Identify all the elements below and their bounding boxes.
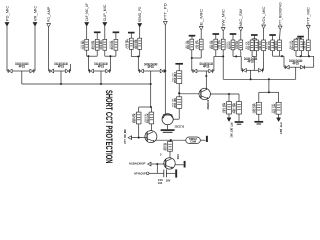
svg-text:R13 10K: R13 10K bbox=[134, 40, 136, 48]
text 16V bbox=[166, 178, 171, 182]
power bar bbox=[269, 35, 276, 40]
resistor R31 bbox=[246, 40, 254, 51]
resistor R1 bbox=[91, 39, 99, 50]
capacitor C35 bbox=[302, 40, 310, 51]
terminal bbox=[175, 169, 177, 177]
svg-text:PTT_PD: PTT_PD bbox=[164, 2, 168, 20]
svg-text:C35 104: C35 104 bbox=[302, 41, 304, 49]
wire bbox=[205, 89, 207, 90]
diode pair D7 D8 bbox=[138, 62, 165, 73]
wire bbox=[149, 172, 164, 174]
node bbox=[228, 93, 230, 95]
wire bbox=[222, 31, 224, 39]
wire bbox=[307, 29, 309, 40]
node bbox=[109, 55, 111, 57]
wire bbox=[273, 51, 284, 57]
resistor R34 bbox=[290, 39, 298, 51]
svg-text:R61 10K: R61 10K bbox=[233, 103, 235, 113]
svg-text:4P1S: 4P1S bbox=[98, 65, 104, 69]
svg-text:R34 47K: R34 47K bbox=[290, 40, 292, 49]
svg-text:PTT_DET: PTT_DET bbox=[279, 123, 283, 135]
wire bbox=[238, 94, 240, 102]
capacitor C2 bbox=[99, 39, 107, 50]
capacitor C62 bbox=[252, 102, 261, 114]
wire T1 base bbox=[179, 93, 201, 95]
wire bbox=[138, 124, 140, 138]
svg-text:HT4ACUP: HT4ACUP bbox=[134, 172, 146, 176]
wire bbox=[178, 84, 180, 94]
wire bbox=[238, 114, 240, 121]
wire bbox=[131, 49, 139, 56]
svg-text:PD_AMP: PD_AMP bbox=[47, 6, 51, 22]
node bbox=[191, 57, 193, 59]
power bar bbox=[230, 34, 237, 40]
node bbox=[137, 55, 139, 57]
transistor Q2 bbox=[162, 114, 184, 129]
svg-text:C11 104: C11 104 bbox=[81, 40, 83, 48]
power bar bbox=[213, 34, 220, 39]
svg-text:MIC_SW: MIC_SW bbox=[239, 8, 243, 27]
resistor R21 bbox=[186, 39, 194, 50]
node G4R bbox=[164, 70, 166, 72]
wire bbox=[253, 57, 255, 71]
svg-text:4P1S: 4P1S bbox=[148, 65, 154, 69]
svg-text:C23 104: C23 104 bbox=[235, 41, 237, 48]
wire bbox=[283, 56, 285, 67]
wire T3 base bbox=[132, 137, 148, 139]
svg-text:2SC: 2SC bbox=[177, 154, 180, 160]
node bbox=[235, 55, 237, 57]
svg-text:R59 10K: R59 10K bbox=[145, 113, 147, 122]
wire bbox=[109, 56, 111, 71]
transistor Q4 bbox=[164, 158, 175, 169]
terminal bbox=[206, 136, 208, 142]
wire bbox=[240, 56, 242, 70]
diode pair D11 D12 bbox=[241, 57, 263, 72]
wire bbox=[150, 84, 152, 107]
svg-text:CAP_MIC_AP: CAP_MIC_AP bbox=[85, 3, 89, 22]
resistor R62 bbox=[272, 102, 281, 114]
wire bbox=[269, 92, 279, 102]
capacitor C34 bbox=[300, 39, 304, 51]
wire bbox=[259, 92, 269, 102]
wire bbox=[306, 56, 314, 67]
wire bbox=[6, 26, 8, 71]
svg-text:2SC2712: 2SC2712 bbox=[175, 125, 185, 129]
port SW_MIC bbox=[221, 8, 225, 31]
port PTT_PD bbox=[163, 2, 167, 25]
wire bbox=[104, 26, 106, 39]
wire bbox=[70, 64, 72, 71]
resistor R59 bbox=[145, 112, 154, 124]
wire bbox=[139, 27, 141, 38]
wire bbox=[214, 50, 223, 57]
svg-text:C22 104: C22 104 bbox=[217, 40, 219, 48]
wire bbox=[278, 114, 280, 118]
capacitor C33 bbox=[274, 40, 282, 51]
node bbox=[87, 55, 89, 57]
wire bbox=[205, 71, 207, 89]
port PTT_DET B bbox=[277, 118, 283, 134]
ground bbox=[161, 130, 175, 132]
wire bbox=[296, 51, 314, 57]
capacitor C32 bbox=[258, 40, 266, 51]
resistor R3 bbox=[134, 38, 142, 49]
capacitor C61 bbox=[223, 102, 232, 114]
capacitor C23 bbox=[235, 40, 243, 50]
node bbox=[250, 78, 252, 80]
wire bbox=[250, 70, 252, 79]
resistor R23 bbox=[227, 40, 235, 50]
port CAP_MIC_AP bbox=[85, 3, 89, 26]
wire bbox=[279, 30, 282, 41]
svg-text:R33 47K: R33 47K bbox=[267, 41, 269, 49]
port PTT_DET A bbox=[227, 118, 233, 138]
svg-text:C61 104: C61 104 bbox=[223, 103, 225, 113]
wire bbox=[228, 94, 230, 102]
wire bbox=[166, 172, 175, 174]
wire to T2 base bbox=[164, 25, 166, 115]
node bbox=[222, 55, 224, 57]
svg-text:R12 10K: R12 10K bbox=[110, 41, 112, 49]
node bbox=[268, 78, 270, 80]
node bbox=[281, 55, 283, 57]
wire bbox=[252, 51, 256, 57]
node bbox=[100, 83, 102, 85]
svg-text:C32 104: C32 104 bbox=[258, 41, 260, 49]
wire bbox=[60, 71, 62, 84]
port E_MIC bbox=[199, 8, 203, 30]
transistor Q3 bbox=[145, 131, 157, 143]
regulator U1 bbox=[186, 137, 201, 144]
wire bbox=[263, 29, 265, 41]
svg-text:R62 10K: R62 10K bbox=[272, 104, 274, 113]
svg-text:A1BACKUP: A1BACKUP bbox=[129, 162, 146, 166]
wire bbox=[295, 67, 297, 79]
wire bbox=[173, 108, 179, 119]
svg-text:VOL_MIC: VOL_MIC bbox=[262, 6, 266, 24]
capacitor C22 bbox=[217, 39, 225, 50]
svg-text:SHORT CCT PROTECTION: SHORT CCT PROTECTION bbox=[103, 90, 114, 164]
node bbox=[308, 55, 310, 57]
svg-text:VR_MIC: VR_MIC bbox=[33, 5, 37, 21]
power bar bbox=[251, 35, 258, 39]
port PTT_SW bbox=[123, 128, 132, 143]
resistor R55 bbox=[173, 71, 182, 84]
svg-text:PTT_MIC: PTT_MIC bbox=[307, 6, 311, 24]
bus wire bbox=[22, 83, 151, 85]
node bbox=[170, 139, 172, 141]
node bbox=[300, 55, 302, 57]
svg-text:R57 1K: R57 1K bbox=[164, 143, 166, 150]
svg-text:C13 104: C13 104 bbox=[125, 39, 127, 48]
power bar bbox=[113, 32, 120, 39]
wire bbox=[233, 50, 241, 57]
wire bbox=[150, 124, 152, 131]
svg-text:R58 47K: R58 47K bbox=[132, 113, 134, 122]
wire bbox=[252, 39, 256, 40]
wire bbox=[240, 31, 242, 40]
wire bbox=[200, 139, 205, 141]
node bbox=[178, 92, 180, 94]
svg-text:PTT_MICROPHO: PTT_MICROPHO bbox=[279, 2, 283, 25]
svg-text:4P1S: 4P1S bbox=[58, 65, 64, 69]
wire bbox=[200, 30, 202, 39]
svg-text:R21 47K: R21 47K bbox=[186, 41, 188, 49]
svg-text:C21 104: C21 104 bbox=[195, 40, 197, 48]
svg-text:4P1S: 4P1S bbox=[19, 65, 25, 69]
svg-text:PD_MIC: PD_MIC bbox=[5, 5, 9, 21]
wire bbox=[100, 71, 102, 84]
resistor R61 bbox=[233, 102, 242, 114]
wire bbox=[156, 164, 158, 173]
wire bbox=[167, 125, 169, 130]
wire bbox=[86, 26, 88, 39]
port MIC_SW bbox=[239, 8, 243, 31]
node bbox=[156, 163, 158, 165]
capacitor C16 bbox=[164, 170, 167, 178]
wire T4 base bbox=[151, 163, 166, 165]
wire T1 emitter bbox=[210, 93, 239, 95]
power bar bbox=[297, 37, 304, 40]
svg-text:2SB1132: 2SB1132 bbox=[206, 100, 210, 110]
port PTT_MIC bbox=[306, 6, 310, 29]
node bbox=[60, 83, 62, 85]
capacitor C31 bbox=[255, 40, 259, 51]
port PD_AMP bbox=[47, 6, 51, 27]
port PTT_MICROPHO bbox=[278, 2, 282, 29]
wire bbox=[268, 79, 270, 92]
svg-text:SW_MIC: SW_MIC bbox=[222, 8, 226, 26]
port HT4ACUP bbox=[134, 172, 149, 176]
svg-text:C5M: C5M bbox=[190, 141, 196, 144]
wire bbox=[137, 57, 139, 72]
diode pair D5 D6 bbox=[88, 62, 111, 73]
wire bbox=[213, 56, 215, 71]
diode pair D3 D4 bbox=[49, 62, 71, 73]
ground bbox=[254, 122, 263, 124]
wire T4 emitter bbox=[175, 164, 183, 166]
port REMO_PD bbox=[138, 6, 142, 27]
transistor Q1 bbox=[199, 88, 210, 109]
resistor R58 bbox=[132, 112, 141, 124]
ground bbox=[235, 122, 244, 124]
node bbox=[138, 137, 140, 139]
wire bbox=[258, 114, 260, 121]
svg-text:4P1S: 4P1S bbox=[247, 60, 253, 64]
port PD_MIC bbox=[5, 5, 9, 26]
capacitor C3 bbox=[125, 38, 133, 49]
resistor R33 bbox=[267, 40, 275, 51]
wire bbox=[191, 58, 193, 71]
text SHORT CCT PROTECTION bbox=[103, 90, 114, 164]
port CLIP_MIC bbox=[103, 4, 107, 26]
wire bbox=[263, 51, 265, 71]
bus wire bbox=[223, 56, 296, 79]
svg-text:REMO_PD: REMO_PD bbox=[138, 6, 142, 22]
node bbox=[150, 83, 152, 85]
wire bbox=[169, 151, 171, 158]
wire bbox=[150, 71, 152, 84]
capacitor C1 bbox=[81, 39, 89, 50]
wire bbox=[228, 114, 230, 118]
node bbox=[205, 75, 207, 77]
wire bbox=[48, 27, 50, 71]
text C16 bbox=[158, 178, 163, 182]
label 2SC bbox=[177, 154, 180, 160]
resistor R2 bbox=[110, 39, 118, 50]
svg-text:R23 47K: R23 47K bbox=[227, 41, 229, 48]
wire bbox=[87, 50, 98, 56]
diode pair D1 D2 bbox=[7, 62, 35, 73]
svg-text:E_MIC: E_MIC bbox=[200, 8, 204, 26]
wire T3 emitter bbox=[155, 139, 186, 141]
svg-text:R11 10K: R11 10K bbox=[91, 41, 93, 49]
node bbox=[268, 91, 270, 93]
port A1BACKUP bbox=[129, 162, 151, 166]
resistor R56 bbox=[173, 97, 182, 109]
wire bbox=[192, 50, 201, 58]
node bbox=[150, 106, 152, 108]
resistor R57 bbox=[164, 142, 173, 152]
port VOL_MIC bbox=[262, 6, 266, 29]
svg-text:16V: 16V bbox=[166, 178, 171, 182]
svg-text:4P1S: 4P1S bbox=[203, 65, 209, 69]
wire bbox=[139, 107, 152, 112]
wire bbox=[21, 71, 23, 84]
wire bbox=[87, 56, 89, 71]
text 104 bbox=[158, 181, 163, 185]
power bar bbox=[175, 64, 183, 71]
svg-text:CLIP_MIC: CLIP_MIC bbox=[103, 4, 107, 21]
wire bbox=[169, 140, 171, 141]
svg-text:C12 104: C12 104 bbox=[99, 41, 101, 49]
power bar bbox=[94, 32, 101, 39]
svg-text:4P1S: 4P1S bbox=[293, 62, 299, 66]
wire bbox=[105, 50, 116, 56]
svg-text:C33 104: C33 104 bbox=[274, 41, 276, 49]
diode pair D13 D14 bbox=[284, 59, 306, 69]
diode pair D9 D10 bbox=[192, 62, 214, 73]
svg-text:PTT_DET_MIC: PTT_DET_MIC bbox=[229, 123, 233, 139]
svg-text:R55 4K7: R55 4K7 bbox=[173, 72, 175, 82]
capacitor C21 bbox=[195, 39, 203, 50]
wire bbox=[34, 26, 36, 71]
wire bbox=[178, 93, 180, 97]
resistor R22 bbox=[210, 39, 218, 50]
terminal bbox=[184, 161, 186, 168]
svg-text:R56 10K: R56 10K bbox=[173, 98, 175, 107]
port VR_MIC bbox=[33, 5, 37, 26]
svg-text:PTT_SW_MIC: PTT_SW_MIC bbox=[123, 128, 127, 143]
svg-text:R31 47K: R31 47K bbox=[246, 41, 248, 49]
text pin 3 bbox=[160, 154, 162, 157]
svg-text:R22 47K: R22 47K bbox=[210, 41, 212, 49]
wire bbox=[296, 38, 302, 39]
svg-text:C62 104: C62 104 bbox=[252, 103, 254, 112]
power bar bbox=[128, 33, 135, 39]
power bar bbox=[189, 36, 196, 40]
svg-text:104: 104 bbox=[158, 181, 163, 185]
